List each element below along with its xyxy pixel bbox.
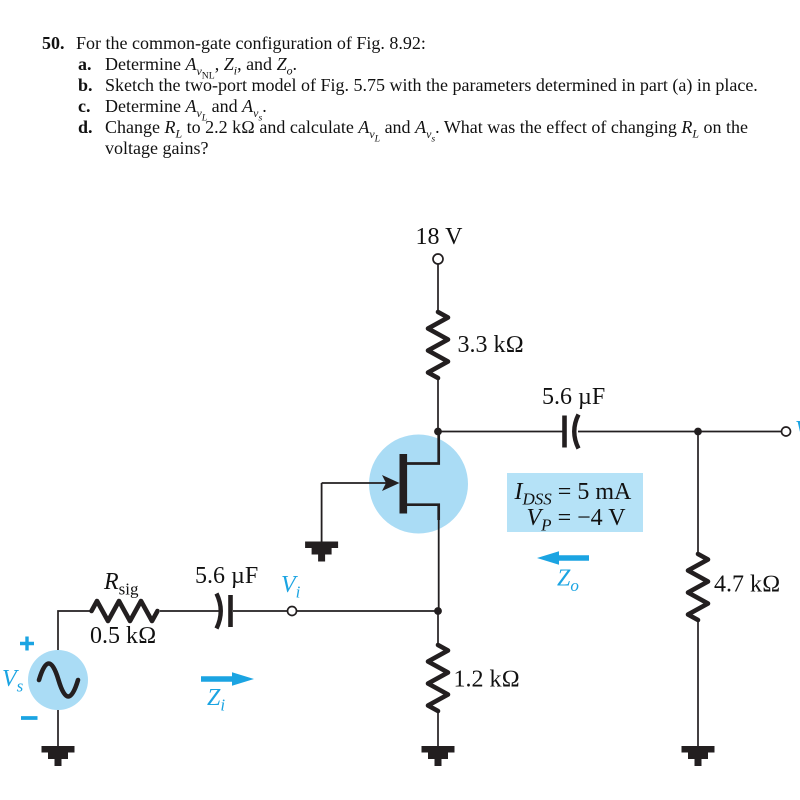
svg-text:1.2 kΩ: 1.2 kΩ (454, 667, 520, 693)
wire RL to ground (697, 620, 699, 748)
wire Vs to Rsig (58, 611, 92, 650)
wire output node to RL (697, 432, 699, 556)
resistor RD 3.3 kOhm (428, 312, 448, 378)
arrow Zi (201, 672, 254, 685)
wire 18V terminal to RD (437, 264, 439, 314)
svg-text:Zo: Zo (557, 566, 579, 596)
problem statement (42, 34, 65, 52)
label minus (21, 716, 38, 720)
wire source to source node (438, 505, 440, 611)
svg-text:Zi: Zi (207, 685, 225, 715)
annotation box IDSS VP (507, 473, 643, 535)
wire Vs to ground (57, 710, 59, 748)
svg-text:V: V (795, 417, 800, 443)
wire RD to drain node (437, 378, 439, 432)
ground (RL) (682, 746, 715, 766)
wire RS to ground (437, 711, 439, 748)
wire C2 to output node (578, 431, 698, 433)
svg-text:5.6 µF: 5.6 µF (195, 563, 258, 589)
node Vo terminal (782, 427, 791, 436)
node Vi (288, 607, 297, 616)
wire C1 to Vi node (233, 610, 288, 612)
ground (Vs) (42, 746, 75, 766)
svg-text:18 V: 18 V (416, 224, 464, 250)
wire Vi node to source node (292, 610, 438, 612)
resistor RL 4.7 kOhm (688, 554, 708, 620)
arrow Zo (537, 551, 589, 564)
wire Rsig to C1 (160, 610, 221, 612)
svg-text:Vi: Vi (281, 572, 301, 602)
svg-text:3.3 kΩ: 3.3 kΩ (458, 332, 524, 358)
transistor Q1 JFET (322, 433, 468, 534)
svg-text:Vs: Vs (2, 666, 24, 696)
resistor Rsig 0.5 kOhm (92, 601, 158, 621)
ground (RS) (422, 746, 455, 766)
junction output node (694, 428, 702, 436)
junction source node (434, 607, 442, 615)
wire output node to Vo terminal (698, 431, 782, 433)
source Vs (28, 650, 88, 710)
resistor RS 1.2 kOhm (428, 645, 448, 711)
svg-text:5.6 µF: 5.6 µF (542, 384, 605, 410)
wire drain node to capacitor C2 (438, 431, 563, 433)
junction drain node (434, 428, 442, 436)
wire gate to ground (321, 483, 323, 543)
wire RS top (437, 611, 439, 646)
capacitor C2 5.6 uF (565, 415, 579, 449)
svg-text:Rsig: Rsig (103, 569, 139, 599)
svg-text:0.5 kΩ: 0.5 kΩ (90, 623, 156, 649)
label plus (20, 637, 34, 651)
node 18V supply terminal (433, 254, 443, 264)
capacitor C1 5.6 uF (217, 594, 231, 629)
ground (gate) (305, 542, 338, 562)
svg-text:4.7 kΩ: 4.7 kΩ (714, 572, 780, 598)
